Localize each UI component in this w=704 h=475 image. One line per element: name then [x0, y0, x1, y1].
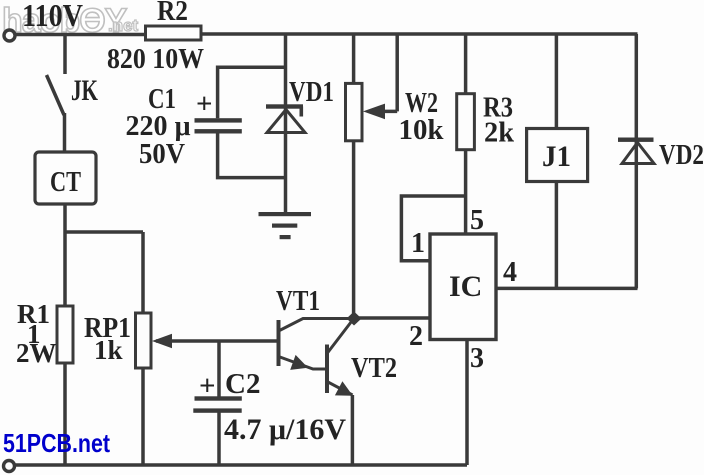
- svg-text:4: 4: [503, 257, 517, 288]
- transistor VT2: [327, 320, 353, 396]
- VT2 base bar: [325, 345, 329, 394]
- wire J1 to pin4: [555, 182, 559, 289]
- diode VD1 vertical wire: [284, 34, 288, 214]
- wire JK branch: [63, 35, 67, 75]
- capacitor C1 bottom plate: [195, 129, 242, 133]
- relay J1: [527, 129, 588, 182]
- wire R3 to IC pin5: [464, 150, 468, 234]
- node collector junction: [347, 312, 362, 326]
- capacitor C1 top plate: [195, 118, 242, 122]
- svg-text:CT: CT: [50, 166, 81, 198]
- wire junction to RP1: [65, 232, 143, 313]
- wire R3 branch top: [464, 34, 468, 94]
- svg-text:10k: 10k: [399, 114, 445, 146]
- svg-text:J1: J1: [542, 140, 571, 173]
- wire RP1 wiper to VT1 base: [156, 339, 279, 343]
- wire J1 branch top: [555, 34, 559, 129]
- wire IC pin3: [465, 340, 469, 466]
- diode VD2: [622, 143, 654, 164]
- terminal top-left input: [4, 30, 15, 41]
- wire IC pin4: [496, 287, 638, 291]
- switch JK: [47, 75, 65, 115]
- potentiometer RP1: [136, 313, 152, 368]
- svg-text:4.7 μ/16V: 4.7 μ/16V: [224, 413, 346, 446]
- svg-text:2: 2: [409, 321, 423, 352]
- wire JK to CT: [63, 113, 67, 152]
- VT1 emitter arrowhead: [290, 355, 308, 370]
- wire W2 to collector node: [352, 141, 356, 314]
- svg-text:5: 5: [470, 205, 484, 236]
- svg-text:51PCB.net: 51PCB.net: [3, 428, 110, 458]
- resistor R2: [146, 26, 202, 40]
- W2 wiper arrowhead: [363, 104, 385, 120]
- svg-text:VT1: VT1: [276, 286, 320, 317]
- VT1 base bar: [277, 320, 281, 366]
- zener VD1 right tick: [300, 107, 304, 117]
- wire VT2 emitter down: [351, 395, 355, 465]
- wire W2 branch top: [352, 34, 356, 83]
- ground bar 3: [280, 235, 291, 239]
- transformer CT: [35, 152, 96, 204]
- capacitor C2 top plate: [195, 396, 242, 400]
- svg-text:1k: 1k: [94, 335, 123, 365]
- svg-text:820 10W: 820 10W: [107, 43, 204, 75]
- capacitor C1 link wires: [218, 67, 286, 177]
- capacitor C2 bottom plate: [193, 408, 241, 412]
- svg-text:C2: C2: [225, 368, 260, 400]
- terminal bottom-left: [4, 461, 15, 472]
- ground bar 2: [272, 224, 297, 228]
- resistor R3: [457, 94, 475, 150]
- svg-text:JK: JK: [71, 74, 98, 107]
- svg-text:IC: IC: [449, 270, 482, 303]
- transistor VT1: [279, 319, 349, 370]
- RP1 wiper arrowhead: [152, 334, 172, 349]
- svg-text:VT2: VT2: [351, 353, 397, 384]
- resistor R1: [57, 306, 73, 363]
- svg-text:VD2: VD2: [659, 140, 704, 171]
- zener diode VD1: [267, 110, 305, 133]
- wire top rail: [16, 32, 638, 36]
- svg-text:3: 3: [470, 343, 484, 374]
- svg-text:+: +: [199, 370, 216, 402]
- wire C2 branch: [217, 341, 221, 465]
- svg-text:R2: R2: [157, 0, 188, 27]
- VT2 emitter arrowhead: [335, 381, 353, 396]
- potentiometer W2: [346, 83, 363, 140]
- wire RP1 to bottom rail: [141, 368, 145, 465]
- watermark haobuY.net: [2, 2, 139, 40]
- svg-text:.net: .net: [108, 16, 139, 35]
- wire W2 wiper from rail: [380, 34, 397, 111]
- wire CT to R1: [63, 204, 67, 306]
- wire IC pin1 loop: [401, 196, 465, 261]
- svg-text:2k: 2k: [484, 117, 515, 149]
- bottom rail wire: [15, 463, 468, 467]
- svg-text:50V: 50V: [139, 138, 185, 170]
- zener VD1 cathode bar: [266, 104, 303, 108]
- wire VD2 branch: [635, 34, 639, 288]
- ground bar 1: [259, 212, 312, 216]
- diode VD2 cathode bar: [618, 138, 654, 142]
- svg-text:VD1: VD1: [289, 76, 334, 108]
- svg-text:+: +: [196, 88, 213, 120]
- IC U1 box: [430, 234, 496, 340]
- wire IC pin2: [354, 316, 430, 320]
- svg-text:2W: 2W: [16, 338, 57, 368]
- svg-text:110V: 110V: [22, 0, 83, 33]
- wire R1 to bottom rail: [63, 363, 67, 465]
- svg-text:1: 1: [411, 228, 425, 259]
